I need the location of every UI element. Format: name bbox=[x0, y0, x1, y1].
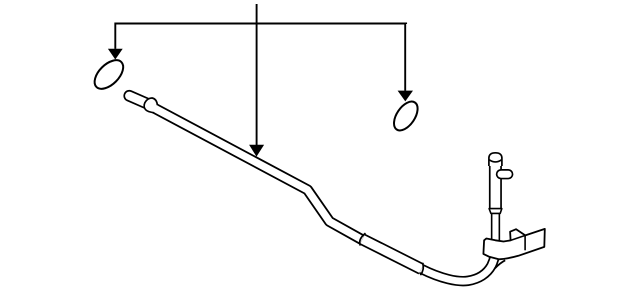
wire: callout bracket line bbox=[115, 4, 406, 145]
tube front capsule end (white core) bbox=[129, 96, 149, 105]
grommet right (ellipse) bbox=[389, 97, 422, 134]
arrowhead left bbox=[108, 49, 123, 60]
arrowhead right bbox=[398, 91, 413, 102]
bracket tab fold line bbox=[511, 235, 526, 240]
nub port on cylinder (outline) bbox=[501, 169, 508, 179]
tube: main thin tube run (white core) bbox=[150, 106, 362, 240]
connector cylinder body (outline) bbox=[489, 160, 502, 209]
connector stem (outline) bbox=[491, 213, 500, 244]
tube front capsule end (outline) bbox=[129, 96, 149, 105]
connector cylinder body (white core) bbox=[491, 160, 501, 209]
hose curved section (outline) bbox=[421, 252, 495, 282]
sleeve right end arc bbox=[420, 263, 423, 275]
grommet left (ellipse) bbox=[89, 55, 128, 94]
arrowhead center bbox=[249, 145, 264, 157]
collar ring at capsule bbox=[144, 98, 157, 113]
connector stem (white core) bbox=[492, 213, 498, 244]
bracket front corner edge bbox=[524, 235, 526, 250]
hose end flare edge bbox=[495, 260, 506, 268]
bracket clamp body bbox=[483, 229, 544, 259]
taper between cylinder and stem bbox=[489, 209, 502, 214]
tube: main thin tube run (outline) bbox=[150, 106, 362, 240]
sleeve left end arc bbox=[360, 233, 366, 245]
sleeve section (white core) bbox=[363, 239, 422, 269]
nub port on cylinder (white core) bbox=[501, 171, 508, 178]
sleeve section (outline) bbox=[363, 239, 422, 269]
cylinder top seam arc bbox=[489, 160, 501, 162]
hose curved section (white core) bbox=[421, 252, 495, 282]
cylinder dome top bbox=[489, 153, 502, 166]
